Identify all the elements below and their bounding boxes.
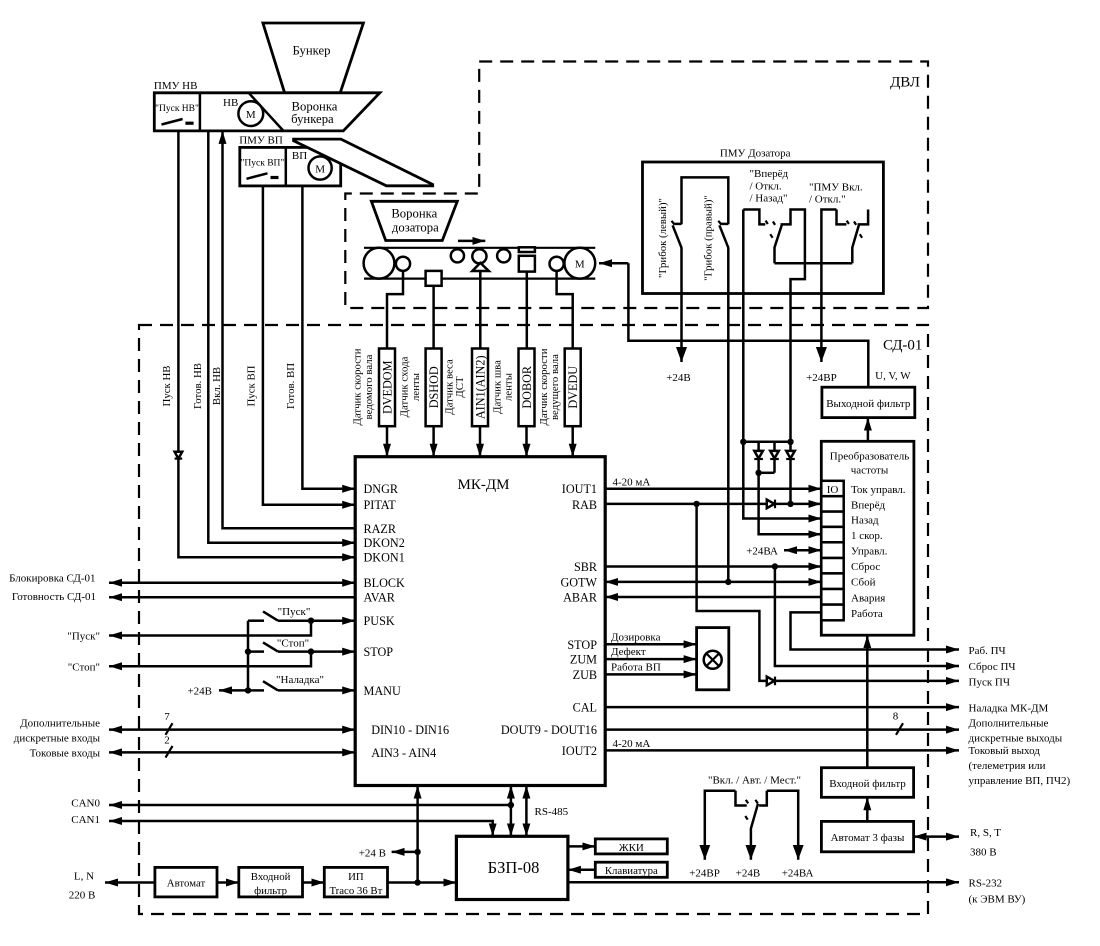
ticks ПМУ Вкл contacts: [847, 221, 857, 225]
box Входной фильтр right: [821, 768, 913, 798]
svg-text:"ПМУ Вкл.: "ПМУ Вкл.: [809, 182, 863, 194]
motor circle VP: [309, 156, 332, 179]
svg-text:+24В: +24В: [736, 868, 761, 880]
svg-text:AIN3 - AIN4: AIN3 - AIN4: [371, 746, 436, 760]
svg-text:+24 В: +24 В: [359, 847, 386, 859]
title Преобразователь частоты: [830, 450, 909, 476]
arrow +24 В tap: [392, 851, 418, 854]
svg-text:380 В: 380 В: [970, 847, 997, 859]
svg-text:фильтр: фильтр: [254, 885, 287, 897]
slash 2 wires: [166, 746, 173, 758]
right small roller (speed sensor): [550, 257, 564, 271]
svg-text:+24В: +24В: [666, 372, 691, 384]
selector left contact: [736, 791, 747, 806]
svg-text:RS-232: RS-232: [969, 878, 1003, 890]
box ЖКИ: [595, 839, 667, 854]
svg-text:дозатора: дозатора: [392, 221, 439, 235]
wire Грибок левый to +24В: [680, 248, 683, 363]
wire R,S,T 380В double arrow: [914, 835, 959, 838]
arrow DSHOD to MK-DM: [432, 426, 435, 457]
switch Стоп contact stub: [248, 650, 264, 653]
svg-text:/ Откл.": / Откл.": [809, 194, 846, 206]
wire CAN1: [109, 821, 493, 836]
svg-text:4-20 мА: 4-20 мА: [613, 738, 651, 750]
junction Грибок правый on GOTW: [725, 579, 731, 585]
label Токовый выход телеметрия: [969, 745, 1071, 787]
selector left pole to +24ВР: [705, 791, 736, 860]
svg-text:220 В: 220 В: [69, 890, 96, 902]
svg-text:Дополнительные: Дополнительные: [969, 718, 1049, 730]
svg-text:Воронка: Воронка: [391, 206, 437, 220]
svg-text:Сброс ПЧ: Сброс ПЧ: [969, 661, 1016, 673]
junction +24V power line: [414, 879, 420, 885]
switch common vertical +24V local: [247, 621, 250, 691]
wire GOTW to Сбой: [605, 581, 821, 584]
svg-text:М: М: [575, 259, 585, 271]
svg-text:Пуск НВ: Пуск НВ: [161, 366, 173, 407]
selector right pole to +24ВА: [767, 791, 798, 860]
selector Вперёд/Откл/Назад left hook: [743, 210, 765, 225]
wire STOP to lamp: [605, 643, 696, 646]
arrow БЗП to ЖКИ: [568, 845, 595, 848]
svg-text:БЗП-08: БЗП-08: [488, 858, 540, 877]
selector ПМУ Вкл/Откл left pole: [821, 210, 836, 363]
label R, S, T: [970, 827, 1001, 859]
label ИП Traco: [329, 871, 382, 897]
svg-text:ZUB: ZUB: [573, 668, 597, 682]
svg-text:RS-485: RS-485: [535, 806, 569, 818]
bracket Грибок switches: [682, 177, 729, 224]
switch Пуск contact stub: [248, 619, 264, 622]
wire RS-232 output: [568, 881, 959, 884]
sensor box DVEDU: [565, 349, 581, 427]
svg-text:L, N: L, N: [74, 871, 94, 883]
svg-text:бункера: бункера: [291, 112, 334, 126]
junction rail left: [740, 439, 746, 445]
diode rail top: [743, 441, 790, 444]
arrow ПЧ to Выходной фильтр: [867, 418, 870, 442]
diode on Пуск ПЧ wire: [767, 677, 775, 686]
svg-text:IOUT2: IOUT2: [562, 744, 597, 758]
svg-text:+24В: +24В: [187, 686, 212, 698]
conveyor belt top line: [364, 247, 595, 249]
svg-text:DKON1: DKON1: [364, 551, 405, 565]
svg-text:Токовые входы: Токовые входы: [30, 747, 101, 759]
wire RAZR to Вкл. НВ (arrow up into PMU NV): [223, 131, 356, 528]
junction Сброс branch: [772, 563, 778, 569]
svg-text:Работа: Работа: [851, 608, 883, 620]
wire +24B feed arrow: [219, 689, 248, 692]
svg-text:"Наладка": "Наладка": [276, 674, 324, 686]
svg-text:Пуск ВП: Пуск ВП: [245, 365, 257, 406]
svg-text:Дефект: Дефект: [611, 646, 646, 658]
wire L,N 220V: [105, 881, 155, 884]
svg-text:ДСТ: ДСТ: [454, 376, 466, 398]
svg-text:AVAR: AVAR: [364, 591, 396, 605]
svg-text:Выходной фильтр: Выходной фильтр: [826, 398, 911, 410]
label Вперёд/Откл/Назад: [750, 168, 789, 205]
svg-text:СД-01: СД-01: [883, 338, 923, 354]
tick Грибок правый: [718, 221, 721, 225]
svg-text:MANU: MANU: [364, 684, 401, 698]
tick below ПМУ Вкл blade: [860, 234, 862, 238]
wire drop to DVEDOM: [387, 271, 403, 349]
wire IOUT1 to Ток управл: [605, 487, 821, 490]
blade ПМУ Вкл: [852, 225, 859, 263]
tick selector left: [746, 800, 748, 804]
junction rail right: [787, 439, 793, 445]
svg-text:+24ВА: +24ВА: [782, 868, 814, 880]
dashed border DVL region: [345, 62, 928, 309]
svg-text:ДВЛ: ДВЛ: [890, 75, 920, 91]
IO cell Сбой: [821, 573, 843, 589]
selector blade to +24В: [751, 804, 758, 860]
wire RAB to Вперёд: [605, 503, 821, 506]
svg-text:управление ВП, ПЧ2): управление ВП, ПЧ2): [969, 775, 1071, 787]
slash 7 wires: [166, 723, 173, 735]
wire SBR to Сброс: [605, 565, 821, 568]
funnel Воронка дозатора: [371, 201, 457, 240]
svg-text:7: 7: [164, 711, 170, 723]
svg-text:RAB: RAB: [572, 498, 597, 512]
svg-text:М: М: [315, 164, 325, 176]
IO cell Работа: [821, 605, 843, 621]
wire CAL to Наладка МК-ДМ: [605, 706, 959, 709]
svg-text:GOTW: GOTW: [560, 575, 597, 589]
svg-text:Сброс: Сброс: [851, 561, 880, 573]
wire DOUT9-DOUT16 output: [605, 728, 959, 731]
box Входной фильтр left: [239, 867, 303, 897]
svg-text:DOBOR: DOBOR: [520, 365, 534, 409]
junction +24V tap: [414, 849, 420, 855]
switch contact stub Пуск НВ: [185, 122, 193, 125]
wire drop to AIN1: [479, 271, 482, 349]
divider PMU VP: [285, 147, 288, 186]
lamp circle: [704, 651, 722, 669]
box Выходной фильтр: [822, 387, 915, 417]
junction common MANU: [245, 687, 251, 693]
motor circle NV: [238, 101, 263, 126]
selector right contact stub: [781, 210, 805, 442]
junction CAN0: [508, 802, 514, 808]
svg-text:(телеметрия или: (телеметрия или: [969, 760, 1046, 772]
svg-text:Работа ВП: Работа ВП: [611, 662, 661, 674]
wire selector left pole down to Назад: [743, 210, 821, 519]
wire ZUB to lamp: [605, 673, 696, 676]
IO cell Назад: [821, 512, 843, 527]
tick below selector blade: [770, 234, 772, 238]
chute from funnel to dosing conveyor: [294, 139, 433, 186]
sensor box AIN1(AIN2): [472, 349, 488, 427]
tick selector right: [755, 800, 757, 804]
box PMU VP: [240, 147, 341, 186]
svg-text:CAN1: CAN1: [71, 814, 100, 826]
wire Пуск ВП to PITAT: [263, 186, 355, 505]
wire Готов. ВП to DNGR: [302, 186, 355, 489]
svg-text:DOUT9 - DOUT16: DOUT9 - DOUT16: [501, 723, 597, 737]
svg-text:SBR: SBR: [574, 560, 598, 574]
svg-text:"Пуск ВП": "Пуск ВП": [241, 159, 285, 169]
IO cell Вперёд: [821, 496, 843, 511]
wire AVAR out left: [109, 596, 355, 599]
junction RAB branch: [693, 501, 699, 507]
lamp box: [697, 628, 729, 690]
blade Грибок левый: [673, 225, 682, 247]
svg-text:"Пуск НВ": "Пуск НВ": [155, 104, 199, 114]
idler circle 3: [497, 249, 510, 262]
svg-text:ABAR: ABAR: [563, 591, 598, 605]
svg-text:Бункер: Бункер: [293, 44, 331, 58]
label Датчик веса ДСТ: [444, 359, 466, 415]
svg-text:ПМУ Дозатора: ПМУ Дозатора: [720, 148, 791, 160]
svg-text:DKON2: DKON2: [364, 536, 405, 550]
wire Грибок правый down to GOTW line: [727, 248, 730, 582]
wire Пуск НВ to DKON1: [178, 131, 355, 557]
svg-text:Авария: Авария: [851, 592, 885, 604]
wire ZUM to lamp: [605, 658, 696, 661]
label Датчик схода ленты: [399, 356, 423, 417]
idler circle 1: [451, 249, 464, 262]
divider PMU NV box: [199, 93, 202, 131]
svg-text:STOP: STOP: [364, 645, 394, 659]
conveyor belt bottom line: [364, 278, 595, 280]
arrow MK-DM to BZP vertical 1: [510, 786, 513, 837]
weight sensor cone: [472, 263, 489, 271]
tick Грибок левый: [672, 221, 675, 225]
diode 1: [754, 442, 763, 473]
svg-text:Управл.: Управл.: [851, 546, 888, 558]
label Датчик шва ленты: [492, 360, 515, 414]
svg-text:Датчик скорости: Датчик скорости: [352, 348, 364, 425]
svg-text:Наладка МК-ДМ: Наладка МК-ДМ: [969, 703, 1049, 715]
common link selector blades: [775, 262, 853, 265]
svg-text:Датчик схода: Датчик схода: [399, 356, 411, 417]
arrow DVEDOM to MK-DM: [386, 426, 389, 457]
svg-text:Готов. ВП: Готов. ВП: [285, 363, 297, 409]
svg-text:Traco 36 Вт: Traco 36 Вт: [329, 885, 382, 897]
IO cell Авария: [821, 589, 843, 605]
diode 2: [770, 442, 779, 473]
motor drum M: [564, 248, 595, 279]
svg-text:1 скор.: 1 скор.: [851, 530, 883, 542]
diode on Вперёд wire: [767, 500, 775, 509]
IO cell Сброс: [821, 558, 843, 573]
svg-text:DVEDOM: DVEDOM: [381, 360, 395, 414]
svg-text:+24ВР: +24ВР: [689, 868, 720, 880]
switch Наладка contact stub: [248, 689, 264, 692]
svg-text:"Пуск": "Пуск": [278, 606, 311, 618]
svg-text:ленты: ленты: [410, 373, 422, 401]
svg-text:Вкл. НВ: Вкл. НВ: [211, 367, 223, 405]
wire BLOCK bidirectional: [109, 581, 355, 584]
conveyor direction arrow: [458, 240, 485, 243]
wire ИП to БЗП-08: [388, 881, 457, 884]
double arrow Управл +24ВА: [784, 549, 821, 552]
idler circle 2 (weight sensor): [472, 249, 486, 263]
svg-text:U, V, W: U, V, W: [875, 370, 911, 382]
svg-text:CAN0: CAN0: [71, 798, 100, 810]
belt seam sensor square: [519, 256, 535, 272]
junction PUSK: [308, 618, 314, 624]
link diode1-diode2 bottoms: [759, 472, 775, 475]
svg-text:дискретные входы: дискретные входы: [14, 733, 101, 745]
label Датчик скорости ведомого вала: [352, 348, 376, 425]
svg-text:Готовность СД-01: Готовность СД-01: [12, 591, 96, 603]
arrow DOBOR to MK-DM: [525, 426, 528, 457]
svg-text:ZUM: ZUM: [570, 653, 597, 667]
svg-text:ЖКИ: ЖКИ: [619, 842, 644, 854]
svg-text:IO: IO: [827, 484, 839, 496]
arrow DVEDU to MK-DM: [571, 426, 574, 457]
arrow AIN1 to MK-DM: [479, 426, 482, 457]
svg-text:ведомого вала: ведомого вала: [363, 354, 375, 419]
svg-text:ВП: ВП: [292, 150, 307, 162]
svg-text:AIN1(AIN2): AIN1(AIN2): [474, 355, 488, 419]
svg-text:"Грибок (левый)": "Грибок (левый)": [657, 198, 669, 278]
svg-text:4-20 мА: 4-20 мА: [613, 477, 651, 489]
sensor box DVEDOM: [379, 349, 395, 427]
junction diode3 on Вперёд: [787, 501, 793, 507]
selector right contact: [759, 791, 767, 806]
svg-text:Назад: Назад: [851, 515, 879, 527]
svg-text:2: 2: [164, 735, 170, 747]
svg-text:ПМУ НВ: ПМУ НВ: [154, 80, 198, 92]
label RS-232: [969, 878, 1026, 906]
svg-text:CAL: CAL: [573, 701, 597, 715]
arrow feed into conveyor motor: [599, 262, 628, 265]
arrow Автомат 3 фазы to Входной фильтр: [866, 797, 869, 821]
svg-text:+24ВА: +24ВА: [746, 546, 778, 558]
belt slip sensor square: [426, 271, 442, 286]
wire Готов. НВ to DKON2: [208, 131, 355, 543]
box Автомат: [155, 867, 217, 897]
wire ABAR to Авария: [605, 596, 821, 599]
belt seam sensor top plate: [519, 247, 535, 252]
wire +24V vertical to MK-DM: [416, 786, 419, 883]
svg-text:Сбой: Сбой: [851, 577, 876, 589]
svg-text:Преобразователь: Преобразователь: [830, 450, 909, 462]
arrow MK-DM to BZP vertical 2 RS-485: [525, 786, 528, 837]
svg-text:Готов. НВ: Готов. НВ: [192, 363, 204, 409]
box ИП Traco: [324, 867, 387, 897]
svg-text:Раб. ПЧ: Раб. ПЧ: [969, 645, 1006, 657]
svg-text:DIN10 - DIN16: DIN10 - DIN16: [371, 723, 449, 737]
contact stub Грибок правый: [721, 223, 728, 226]
svg-text:Вперёд: Вперёд: [851, 499, 885, 511]
diagonal divider funnel: [249, 93, 284, 131]
svg-text:RAZR: RAZR: [364, 522, 397, 536]
selector blade Вперёд/Назад: [775, 225, 782, 263]
svg-text:Дозировка: Дозировка: [611, 631, 661, 643]
svg-text:Входной: Входной: [251, 871, 291, 883]
svg-text:BLOCK: BLOCK: [364, 576, 406, 590]
wire to Пуск output: [109, 621, 311, 636]
junction common STOP: [245, 648, 251, 654]
svg-text:Клавиатура: Клавиатура: [605, 865, 658, 877]
wire DIN10-DIN16: [109, 728, 355, 731]
box Преобразователь частоты: [821, 441, 914, 635]
dashed border SD-01 region: [139, 325, 928, 914]
IO cell Управл: [821, 542, 843, 558]
junction STOP: [308, 648, 314, 654]
arrow Клавиатура to БЗП: [568, 868, 595, 871]
sensor box DOBOR: [519, 349, 535, 427]
svg-text:Входной фильтр: Входной фильтр: [829, 778, 906, 790]
svg-text:"Стоп": "Стоп": [68, 661, 100, 673]
svg-text:МК-ДМ: МК-ДМ: [458, 477, 510, 493]
box БЗП-08: [456, 836, 568, 899]
tick selector blade: [745, 816, 747, 820]
assembly PMU NV + funnel Воронка бункера: [154, 93, 379, 131]
wire AIN3-AIN4: [109, 751, 355, 754]
switch contact stub Пуск ВП: [271, 176, 279, 179]
IO cell 1 скор: [821, 527, 843, 542]
wire RAB to Пуск ПЧ: [697, 504, 959, 681]
wire Сброс ПЧ output: [775, 567, 959, 667]
wire drop to DSHOD: [432, 286, 435, 349]
ticks selector contacts: [766, 221, 776, 225]
svg-text:IOUT1: IOUT1: [562, 482, 597, 496]
svg-text:"Вкл. / Авт. / Мест.": "Вкл. / Авт. / Мест.": [708, 774, 801, 786]
wire MANU into box: [278, 689, 355, 692]
svg-text:дискретные выходы: дискретные выходы: [969, 733, 1063, 745]
arrow Автомат to Входной фильтр: [217, 881, 239, 884]
svg-text:+24ВР: +24ВР: [806, 372, 837, 384]
svg-text:ведущего вала: ведущего вала: [549, 354, 561, 420]
ПМУ Вкл right hook: [858, 210, 869, 225]
label Дополнительные дискретные выходы: [969, 718, 1063, 745]
svg-text:Пуск ПЧ: Пуск ПЧ: [969, 676, 1011, 688]
svg-text:"Грибок (правый)": "Грибок (правый)": [702, 195, 714, 281]
svg-text:DNGR: DNGR: [364, 482, 399, 496]
block MK-DM: [355, 457, 605, 786]
svg-text:/ Назад": / Назад": [750, 193, 788, 205]
svg-text:Дополнительные: Дополнительные: [20, 718, 100, 730]
wire drop to DVEDU: [557, 271, 573, 349]
svg-text:"Вперёд: "Вперёд: [750, 168, 789, 180]
IO cell Ток управл: [821, 481, 843, 496]
svg-text:Токовый выход: Токовый выход: [969, 745, 1041, 757]
svg-text:Автомат 3 фазы: Автомат 3 фазы: [831, 832, 905, 844]
svg-text:"Пуск": "Пуск": [67, 631, 100, 643]
box Автомат 3 фазы: [821, 821, 913, 851]
contact stub Грибок левый: [674, 223, 681, 226]
svg-text:STOP: STOP: [567, 638, 597, 652]
svg-text:Ток управл.: Ток управл.: [851, 484, 906, 496]
wire diode pair to 1 скор: [759, 473, 822, 535]
blade Грибок правый: [719, 225, 728, 247]
label ПМУ Вкл/Откл: [809, 182, 863, 206]
svg-text:R, S, T: R, S, T: [970, 827, 1001, 839]
svg-text:/ Откл.: / Откл.: [750, 181, 782, 193]
diode 3: [786, 442, 795, 504]
switch Стоп blade: [263, 642, 278, 651]
svg-text:DSHOD: DSHOD: [427, 366, 441, 408]
wire PUSK into box: [278, 619, 355, 622]
wire CAN0: [109, 804, 511, 807]
svg-text:PITAT: PITAT: [364, 498, 397, 512]
junction diode bottoms: [755, 470, 761, 476]
svg-text:(к ЭВМ ВУ): (к ЭВМ ВУ): [969, 894, 1026, 906]
svg-text:Автомат: Автомат: [167, 878, 206, 890]
svg-text:"Стоп": "Стоп": [277, 638, 309, 650]
wire to Стоп output: [109, 652, 311, 667]
wire Работа to Раб ПЧ: [791, 612, 960, 649]
switch symbol Пуск НВ: [162, 119, 183, 125]
svg-text:8: 8: [893, 711, 899, 723]
switch Пуск blade: [263, 611, 278, 620]
switch symbol Пуск ВП: [247, 173, 268, 179]
